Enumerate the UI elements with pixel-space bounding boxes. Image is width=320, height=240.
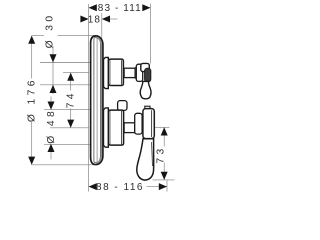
cross handle bottom spoke [140, 81, 151, 98]
wire handle-front extension line [150, 4, 152, 64]
cross handle front hub [145, 68, 151, 82]
thermostat knob body [109, 59, 124, 85]
dimension 18 [80, 14, 117, 25]
dimension 83-111 [89, 3, 151, 14]
svg-text:83 - 111: 83 - 111 [98, 3, 142, 14]
wire plate-bottom extension line [32, 164, 95, 166]
thermostat handle collar [136, 64, 142, 81]
svg-text:Ø 176: Ø 176 [26, 77, 37, 122]
svg-text:73: 73 [155, 145, 166, 163]
volume knob safety tab [118, 101, 127, 111]
wire knob30-top extension line [40, 62, 96, 64]
svg-text:18: 18 [88, 14, 101, 25]
svg-text:88 - 116: 88 - 116 [96, 182, 144, 193]
lever arm [137, 139, 154, 180]
wire axis74-top extension line [63, 72, 89, 74]
wire lever-front extension line [166, 180, 168, 191]
svg-text:Ø 48: Ø 48 [46, 108, 57, 144]
wire wall extension line [88, 4, 90, 192]
dimension 88-116 [89, 182, 167, 193]
thermostat knob stem [124, 68, 135, 77]
lever collar [135, 113, 142, 134]
dimension D176 [26, 36, 37, 165]
wire lever73-top extension line [155, 126, 170, 128]
volume knob rosette [104, 108, 109, 147]
wire plate-front extension line [101, 13, 103, 44]
dimension D30 [45, 12, 57, 94]
wire plate-top extension line [32, 35, 95, 37]
wire lever73-bottom extension line [153, 179, 175, 181]
escutcheon plate side profile [91, 36, 103, 165]
dimension D48 [46, 97, 57, 160]
volume knob body [109, 110, 124, 145]
wire body48-top extension line [44, 109, 110, 111]
thermostat knob rosette [104, 57, 109, 88]
volume knob stem [124, 123, 135, 133]
dimension 73 [155, 127, 167, 180]
lever hub cap [145, 106, 150, 110]
cross handle top spoke [141, 63, 150, 71]
svg-text:74: 74 [66, 90, 77, 108]
wire knob30-bottom extension line [40, 84, 104, 86]
svg-text:Ø 30: Ø 30 [45, 12, 56, 48]
wire axis74-bottom extension line [50, 127, 89, 129]
dimension 74 [66, 73, 77, 128]
wire body48-bottom extension line [44, 143, 108, 145]
lever hub [143, 109, 154, 139]
